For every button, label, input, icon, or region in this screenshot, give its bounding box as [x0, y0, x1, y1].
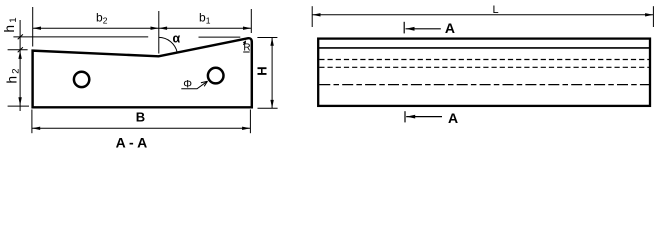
arrow b2 left: [33, 27, 41, 30]
svg-text:Φ: Φ: [183, 79, 192, 91]
section marker top line: [406, 28, 441, 30]
section marker top tick: [403, 22, 405, 34]
svg-text:H: H: [255, 66, 270, 75]
arrow b1 left: [159, 27, 167, 30]
hole left (circle): [74, 72, 89, 87]
arrow L left: [312, 13, 320, 16]
arrow L right: [645, 13, 653, 16]
reference line at top-right corner level (right segment): [199, 36, 241, 38]
dimension line H: [271, 38, 273, 109]
dashed line 3 (long-short): [319, 84, 649, 86]
dimension line h1/h2 vertical: [19, 20, 21, 111]
slash tick h1 bottom: [18, 47, 23, 52]
section marker top arrow: [406, 27, 415, 31]
inner solid line: [318, 47, 650, 49]
arrow H up: [270, 38, 273, 46]
arrow h2 up: [18, 51, 21, 59]
svg-text:α: α: [173, 31, 181, 45]
extension line B right: [249, 110, 251, 134]
svg-text:A - A: A - A: [116, 135, 148, 151]
arrow b1 right: [243, 27, 251, 30]
svg-text:B: B: [136, 110, 145, 125]
dashed line 2: [319, 66, 649, 68]
section marker bottom line: [406, 116, 442, 118]
R leader arrowhead: [243, 40, 246, 44]
section marker bottom arrow: [407, 115, 416, 119]
dimension line b2/b1: [33, 27, 252, 29]
R leader line: [243, 42, 245, 45]
phi leader line: [181, 81, 207, 89]
arrow B right: [242, 127, 250, 130]
dashed line 1: [319, 59, 649, 61]
extension line H top: [257, 37, 277, 39]
svg-text:L: L: [492, 4, 498, 16]
phi leader open arrowhead: [201, 81, 208, 86]
extension line middle (b2/b1): [158, 11, 160, 54]
extension line L left: [311, 6, 313, 27]
slash tick h1 top: [18, 34, 23, 39]
hole right (circle): [208, 68, 224, 84]
arrow H down: [270, 100, 273, 108]
svg-text:A: A: [448, 110, 458, 126]
arrow B left: [32, 127, 40, 130]
angle alpha arc: [159, 37, 178, 52]
tick line bottom level left: [8, 105, 29, 107]
part outline (section A-A): [33, 38, 252, 107]
extension line B left: [31, 110, 33, 134]
dimension line B: [32, 127, 251, 129]
dimension line L: [312, 14, 653, 16]
arrow h2 down: [18, 97, 21, 105]
right view rectangle: [318, 39, 650, 106]
svg-text:A: A: [445, 20, 455, 36]
extension line right (b1): [250, 9, 252, 33]
R underline: [243, 51, 249, 53]
reference line at top-right corner level (left segment): [13, 36, 148, 38]
extension line H bottom: [258, 107, 278, 109]
section marker bottom tick: [404, 111, 406, 122]
extension line left (b2): [32, 7, 34, 47]
tick line top-left corner level: [8, 49, 28, 51]
arrow b2 right: [151, 27, 159, 30]
extension line L right: [652, 6, 654, 27]
